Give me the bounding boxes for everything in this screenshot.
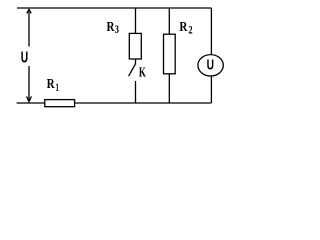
wire right branch upper (to voltmeter) [210, 8, 212, 55]
wire top rail [17, 7, 211, 9]
switch K blade [129, 64, 136, 76]
svg-text:K: K [139, 65, 146, 80]
resistor R2 [164, 34, 176, 74]
svg-text:R: R [47, 76, 56, 91]
voltage arrow down (left, bottom) [28, 66, 30, 102]
wire R3 branch top [135, 8, 137, 33]
wire R2 branch top [168, 8, 170, 34]
svg-text:2: 2 [188, 24, 192, 36]
resistor R1 [45, 100, 75, 107]
svg-text:R: R [179, 19, 188, 34]
voltage arrow up (left, top) [28, 10, 30, 47]
svg-text:U: U [207, 58, 214, 74]
svg-text:3: 3 [115, 24, 120, 36]
wire R2 branch bottom [168, 74, 170, 103]
wire R3 to switch stub [135, 59, 137, 64]
wire right branch lower (from voltmeter) [210, 76, 212, 103]
voltmeter U1 [198, 55, 223, 76]
svg-text:U: U [21, 49, 28, 66]
wire switch to bottom rail [135, 81, 137, 103]
resistor R3 [129, 33, 141, 59]
wire bottom rail [17, 102, 212, 104]
svg-text:1: 1 [56, 82, 60, 94]
